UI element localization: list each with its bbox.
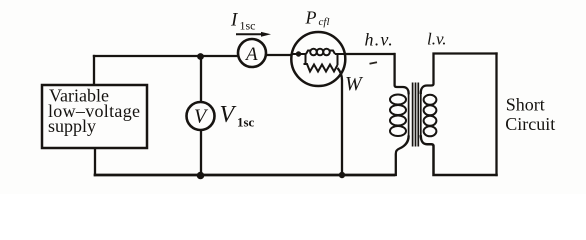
svg-text:cfl: cfl [319,16,330,28]
transformer l.v. winding loop 2 [424,105,437,115]
svg-text:W: W [345,73,364,95]
transformer l.v. winding loop 4 [424,126,437,136]
stray mark near h.v. [370,62,378,64]
node: junction dot bottom rail below voltmeter [197,172,205,180]
node: wattmeter input dot [296,51,301,56]
wire: ammeter to wattmeter [266,54,300,56]
node: junction dot top rail above voltmeter [197,53,204,60]
wire: supply box bottom down to bottom rail [94,148,96,175]
transformer h.v. winding loop 1 [390,95,406,105]
wattmeter current coil loops [306,51,311,55]
svg-text:V: V [220,102,237,128]
wattmeter voltage branch left stub [305,54,307,64]
arrow: current direction [236,33,262,35]
ammeter A [238,39,266,67]
transformer l.v. winding spine [420,93,422,137]
svg-text:P: P [305,8,317,28]
svg-text:Short: Short [506,94,545,114]
wire: voltmeter lower lead [200,130,202,175]
wattmeter W (circle) [291,32,345,86]
wire: h.v. primary down-lead into winding [395,54,409,93]
svg-text:1sc: 1sc [237,115,255,130]
transformer core line 1 [412,83,414,147]
svg-text:A: A [244,44,258,65]
wire: riser from top rail down to supply box top [93,56,95,85]
wire: wattmeter voltage lead down to bottom rail [338,68,343,175]
wire: top rail from supply riser to ammeter [94,55,238,57]
svg-text:l.v.: l.v. [427,30,447,49]
voltmeter V [187,102,215,130]
wattmeter resistor (voltage coil) zigzag [304,64,338,72]
transformer h.v. winding loop 2 [390,105,406,115]
svg-text:supply: supply [48,116,96,136]
transformer l.v. winding loop 1 [424,95,437,105]
wire: l.v. bottom lead and bottom return [421,137,497,176]
wattmeter current-coil entry wire [292,53,306,55]
wire: h.v. winding bottom lead to bottom rail [396,137,409,176]
wire: short-circuit right-side vertical [495,54,497,176]
transformer h.v. winding spine [408,93,410,137]
supply box: Variable low-voltage supply [42,85,147,148]
svg-text:Circuit: Circuit [505,114,555,134]
wire: l.v. top lead to short-circuit loop [421,54,497,93]
svg-text:h.v.: h.v. [365,30,394,50]
wattmeter voltage branch right stub to main wire [337,54,339,65]
wire: voltmeter upper lead [200,57,202,103]
wire: wattmeter to h.v. top corner [337,53,394,55]
transformer core line 2 [415,83,417,147]
wattmeter exit wire [335,53,345,55]
transformer l.v. winding loop 3 [424,116,437,126]
transformer core line 3 [417,83,419,147]
wire: bottom rail [95,174,394,177]
node: junction dot bottom rail below wattmeter [339,172,345,178]
transformer h.v. winding loop 4 [390,126,406,136]
svg-text:1sc: 1sc [240,19,256,33]
transformer h.v. winding loop 3 [390,116,406,126]
